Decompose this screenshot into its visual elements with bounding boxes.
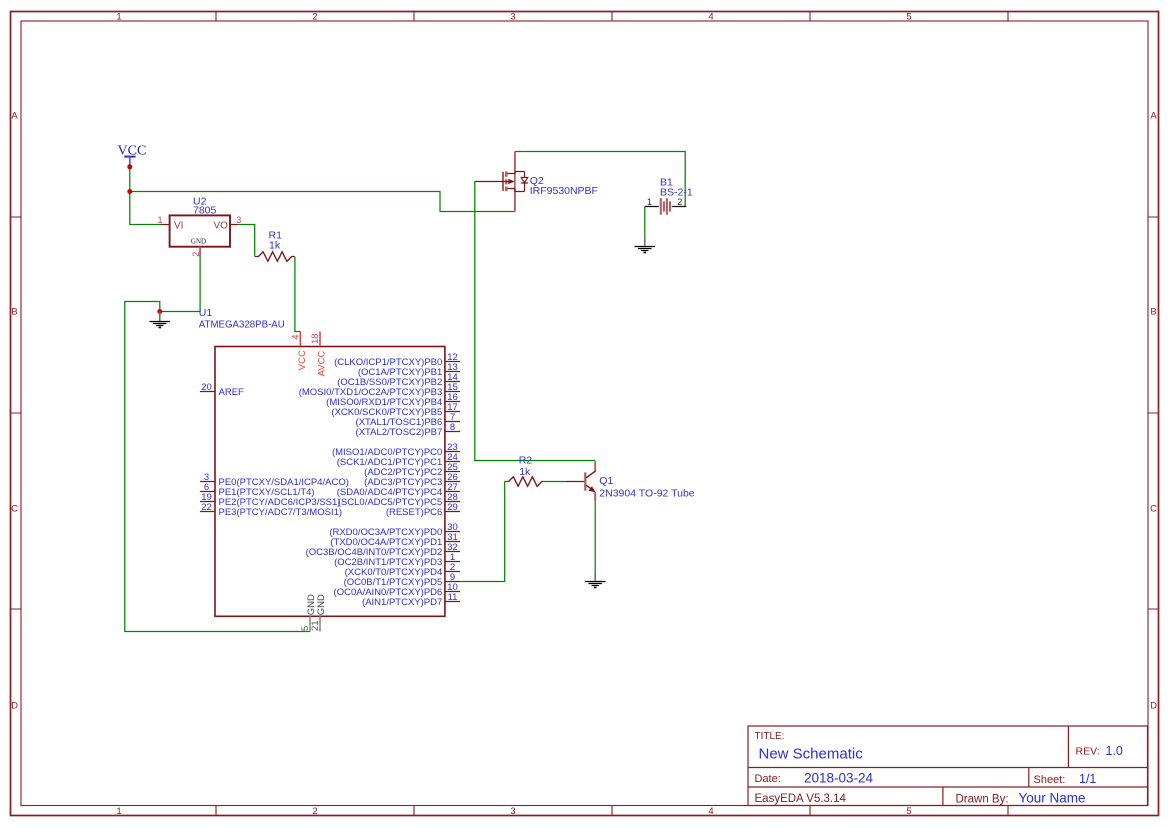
svg-text:2N3904 TO-92 Tube: 2N3904 TO-92 Tube: [599, 487, 695, 499]
U1 top pin names VCC AVCC: [297, 350, 328, 376]
svg-text:1: 1: [647, 197, 652, 207]
svg-text:4: 4: [708, 806, 713, 817]
wire VCC to U2 pin1: [130, 167, 162, 225]
ruler row letters right: [1150, 111, 1157, 712]
svg-text:GND: GND: [316, 594, 327, 615]
svg-text:VO: VO: [214, 221, 229, 232]
svg-text:REV:: REV:: [1076, 746, 1100, 758]
svg-text:TITLE:: TITLE:: [755, 731, 785, 742]
transistor Q2 IRF9530NPBF (P-MOSFET): [475, 152, 528, 212]
U1 right pin names: [299, 357, 443, 608]
U1 left pin names: [219, 387, 349, 518]
svg-text:C: C: [11, 504, 18, 515]
U1 right pin stubs: [445, 362, 460, 602]
svg-text:3: 3: [510, 12, 515, 23]
ground symbol near U2: [150, 311, 171, 327]
svg-text:U1: U1: [199, 307, 213, 319]
U2 pin 3 (VO): [230, 224, 238, 226]
MCU U1 ATMEGA328PB-AU body: [215, 347, 445, 617]
junction dot VCC branch: [127, 189, 132, 194]
svg-text:21: 21: [310, 620, 321, 631]
svg-text:D: D: [1150, 701, 1157, 712]
wire B1 pin1 to ground: [644, 207, 646, 237]
transistor Q1 2N3904 (NPN): [566, 461, 596, 501]
svg-text:PE3(PTCY/ADC7/T3/MOSI1): PE3(PTCY/ADC7/T3/MOSI1): [219, 507, 343, 518]
U2 pin 1 (VI): [161, 224, 170, 226]
svg-text:7805: 7805: [193, 205, 217, 217]
resistor R1: [255, 252, 295, 261]
svg-text:29: 29: [447, 502, 458, 513]
svg-text:1/1: 1/1: [1079, 772, 1096, 786]
wire Q2 drain to B1 pin2: [515, 152, 685, 207]
U1 top pin numbers 4 and 18: [290, 333, 321, 344]
svg-text:4: 4: [708, 12, 713, 23]
svg-text:Date:: Date:: [755, 773, 781, 785]
svg-text:AVCC: AVCC: [317, 351, 328, 377]
ruler row letters left: [11, 111, 18, 712]
regulator U2 7805 body: [170, 215, 230, 246]
wire Q2 gate to Q1 collector: [475, 182, 595, 461]
U1 right pin numbers: [447, 352, 458, 603]
U1 bottom pin numbers 5 and 21: [300, 620, 321, 631]
svg-text:22: 22: [201, 502, 212, 513]
svg-text:BS-2-1: BS-2-1: [660, 186, 693, 198]
U1 left pin stubs: [200, 392, 215, 512]
svg-text:VI: VI: [174, 221, 183, 232]
resistor R2: [505, 477, 544, 487]
ruler column numbers top: [116, 12, 911, 23]
ruler column numbers bottom: [116, 806, 911, 817]
svg-text:1k: 1k: [269, 240, 281, 252]
svg-text:ATMEGA328PB-AU: ATMEGA328PB-AU: [199, 320, 285, 331]
wire Q1 emitter to ground: [594, 501, 596, 571]
svg-text:2: 2: [312, 806, 317, 817]
wire R2 to Q1 base: [543, 481, 566, 483]
svg-text:1: 1: [157, 215, 162, 225]
svg-text:3: 3: [510, 806, 515, 817]
svg-text:C: C: [1150, 504, 1157, 515]
svg-text:(AIN1/PTCXY)PD7: (AIN1/PTCXY)PD7: [362, 597, 442, 608]
U1 bottom pin names GND GND: [306, 594, 327, 615]
svg-text:3: 3: [236, 215, 241, 225]
svg-text:(RESET)PC6: (RESET)PC6: [386, 507, 442, 518]
wire R1 to U1 VCC pin4: [295, 257, 300, 332]
svg-text:4: 4: [290, 335, 301, 340]
svg-text:GND: GND: [191, 238, 206, 246]
ground symbol under Q1: [585, 571, 606, 587]
svg-text:A: A: [1150, 111, 1157, 122]
svg-text:2: 2: [677, 197, 682, 207]
svg-text:2018-03-24: 2018-03-24: [804, 770, 874, 785]
wire U2 GND pin2 to ground node: [160, 256, 200, 312]
wire U2 VO to R1: [238, 225, 254, 256]
svg-text:2: 2: [191, 252, 201, 257]
svg-text:EasyEDA V5.3.14: EasyEDA V5.3.14: [755, 793, 847, 805]
svg-text:Your Name: Your Name: [1019, 790, 1086, 805]
svg-text:5: 5: [906, 806, 911, 817]
U1 top pin stubs (VCC pin4, AVCC pin18): [300, 332, 320, 347]
svg-text:AREF: AREF: [219, 387, 245, 398]
wire VCC rail to Q2 source: [130, 192, 515, 212]
wire U1 PD5 pin9 to R2: [460, 482, 505, 582]
svg-text:A: A: [11, 111, 18, 122]
svg-text:1k: 1k: [519, 466, 531, 478]
wire U1 GND pin5 to ground node: [125, 302, 310, 632]
svg-text:(XTAL2/TOSC2)PB7: (XTAL2/TOSC2)PB7: [356, 427, 443, 438]
svg-text:Q1: Q1: [599, 475, 613, 487]
battery B1 BS-2-1: [645, 198, 687, 214]
svg-text:New Schematic: New Schematic: [759, 746, 864, 763]
svg-text:11: 11: [448, 592, 458, 603]
svg-text:1: 1: [116, 806, 121, 817]
svg-text:VCC: VCC: [297, 350, 308, 370]
svg-text:Sheet:: Sheet:: [1034, 774, 1066, 786]
svg-text:1: 1: [116, 12, 121, 23]
junction dot at VCC flag: [127, 164, 132, 169]
svg-text:B: B: [1150, 307, 1156, 318]
ruler ticks left: [11, 217, 22, 609]
U2 pin 2 (GND): [199, 247, 201, 256]
svg-text:2: 2: [312, 12, 317, 23]
svg-text:D: D: [11, 701, 18, 712]
svg-text:5: 5: [906, 12, 911, 23]
svg-text:B: B: [11, 307, 17, 318]
U1 bottom pin stubs (GND pin5, GND pin21): [310, 616, 320, 631]
title block frame: [748, 726, 1148, 806]
svg-text:IRF9530NPBF: IRF9530NPBF: [530, 185, 598, 197]
svg-text:8: 8: [450, 422, 455, 433]
ground symbol under B1: [635, 236, 656, 252]
net VCC flag: [118, 144, 147, 166]
ruler ticks bottom: [216, 806, 1008, 816]
U1 left pin numbers: [201, 382, 212, 513]
svg-text:18: 18: [310, 333, 321, 344]
ruler ticks right: [1148, 217, 1159, 609]
svg-text:Drawn By:: Drawn By:: [956, 793, 1009, 805]
junction dot ground node near U2: [157, 309, 162, 314]
svg-text:1.0: 1.0: [1106, 744, 1123, 758]
svg-text:20: 20: [201, 382, 212, 393]
ruler ticks top: [216, 12, 1008, 22]
